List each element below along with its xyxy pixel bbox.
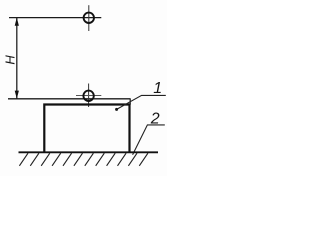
ball impact position: circle (83, 91, 93, 101)
specimen 1 outline (thick box) (44, 105, 129, 152)
impact level line (8, 98, 131, 100)
dimension H: bottom arrowhead (15, 91, 19, 99)
leader 1: line and shelf (117, 95, 166, 109)
ball start position: crosshair vertical (88, 5, 90, 31)
top reference line (drop start level) (9, 17, 101, 19)
dimension H: line (16, 18, 18, 99)
base ground line (19, 151, 159, 153)
base hatching (19, 153, 148, 166)
svg-text:1: 1 (153, 80, 162, 97)
connector from impact line down to specimen corner (129, 99, 131, 105)
ball start position: circle (84, 13, 94, 23)
ball impact position: crosshair vertical (88, 84, 90, 108)
dimension H: top arrowhead (15, 18, 19, 26)
svg-text:H: H (3, 55, 18, 65)
leader 2: shelf and line to base (133, 125, 165, 155)
ball impact position: crosshair horizontal (76, 95, 101, 97)
svg-text:2: 2 (150, 110, 160, 127)
leader 1: dot on specimen (115, 108, 118, 111)
